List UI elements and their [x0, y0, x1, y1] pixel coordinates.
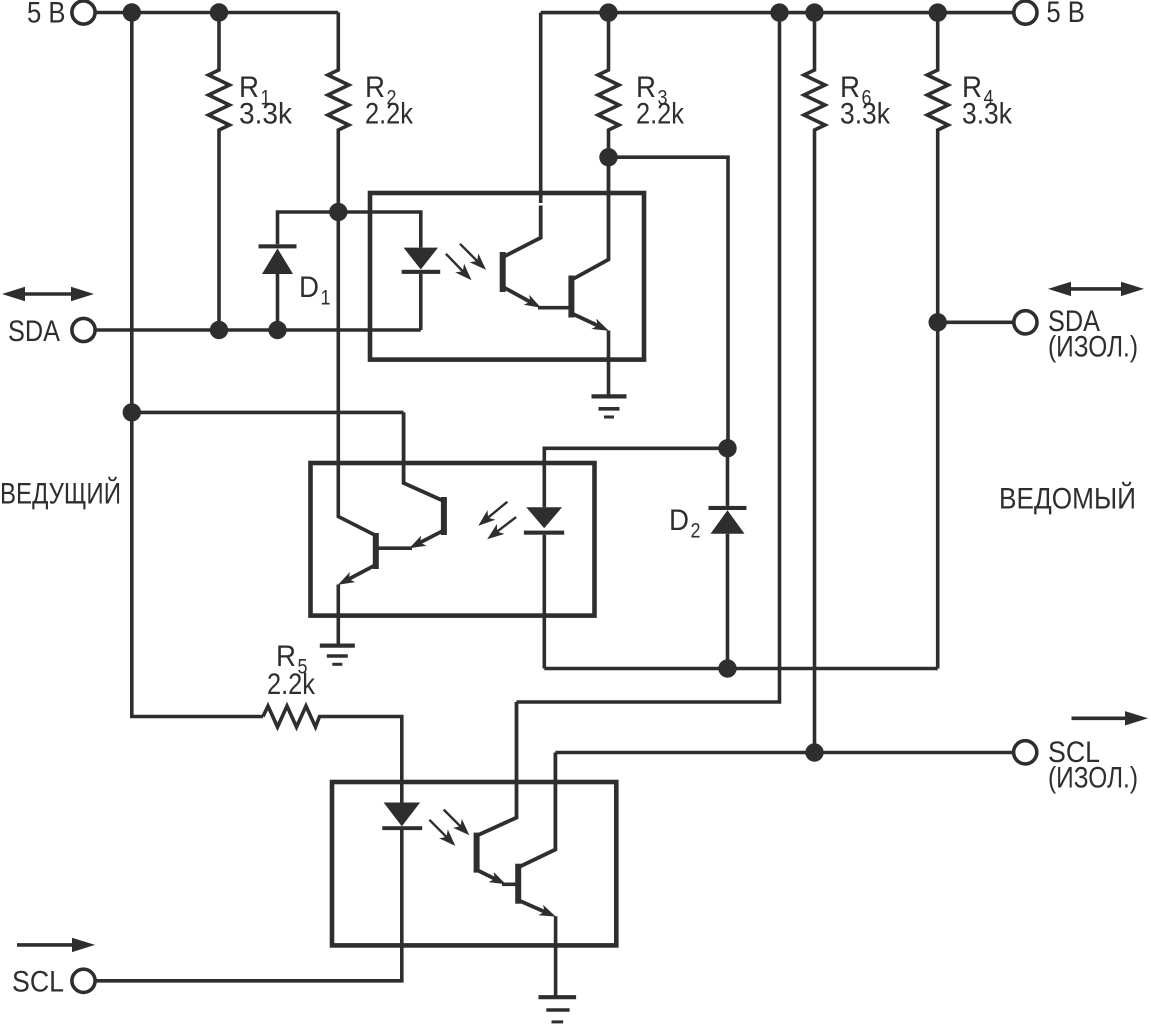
diode D1 — [259, 244, 297, 274]
node: 5V left rail / R1 — [210, 3, 228, 21]
terminal 5V right — [1014, 1, 1037, 24]
ground GND2 — [320, 643, 355, 647]
wire: SDA isolated stub — [938, 320, 1014, 324]
terminal SDA left — [72, 318, 95, 341]
node: R3 / wire to D2 — [599, 148, 617, 166]
arrow: SCL left input — [17, 943, 75, 947]
node: 5V right rail / R6 — [805, 3, 823, 21]
wire: R3 node to D2 cathode — [609, 157, 729, 448]
wire: collector T1a up to right rail — [539, 13, 543, 203]
node: 5V right rail / T1c collector — [770, 3, 788, 21]
phototransistor T1a of U1 — [500, 252, 506, 292]
optocoupler U1 body — [370, 193, 644, 360]
transistor T2a of U1 — [568, 276, 574, 318]
wire: slave lower node y=668 — [544, 667, 937, 671]
node: 5V right rail / R3 — [599, 3, 617, 21]
svg-text:SCL: SCL — [12, 966, 64, 999]
node: R2 / D1 cathode — [329, 203, 347, 221]
wire: D1 anode to SDA rail — [276, 274, 280, 330]
LED1 of U1 — [402, 248, 441, 274]
svg-text:2: 2 — [691, 520, 701, 543]
node: left rail / mid rail — [123, 403, 141, 421]
terminal SDA isolated — [1014, 311, 1037, 334]
terminal SCL isolated — [1014, 741, 1037, 764]
light arrows U3 — [429, 810, 461, 838]
svg-text:5 В: 5 В — [1046, 0, 1085, 29]
wire: R2/D1 node down to T2b collector — [338, 212, 375, 536]
node: SDA isolated / R4 — [929, 313, 947, 331]
wire: D2 anode down — [726, 534, 730, 669]
arrow: SDA left bidirectional — [22, 292, 74, 296]
terminal 5V left — [72, 1, 95, 24]
phototransistor T1c of U3 — [474, 833, 480, 873]
svg-text:3.3k: 3.3k — [962, 98, 1013, 131]
wire: D1 cathode to LED1 anode — [278, 212, 421, 248]
wire: T2b emitter to ground — [336, 585, 340, 646]
node: SCL isolated / R6 — [805, 743, 823, 761]
svg-text:2.2k: 2.2k — [636, 98, 685, 131]
svg-text:ВЕДУЩИЙ: ВЕДУЩИЙ — [0, 477, 121, 511]
svg-text:3.3k: 3.3k — [840, 98, 891, 131]
node: SDA / R1 — [210, 321, 228, 339]
wire: D2 cathode node to LED2 anode — [544, 448, 727, 507]
svg-text:5 В: 5 В — [27, 0, 66, 29]
svg-text:ВЕДОМЫЙ: ВЕДОМЫЙ — [999, 482, 1136, 516]
svg-text:(ИЗОЛ.): (ИЗОЛ.) — [1048, 331, 1138, 364]
svg-text:2.2k: 2.2k — [365, 98, 414, 131]
wire: top right rail — [541, 11, 1014, 15]
arrow: SDA isolated bidirectional — [1068, 287, 1124, 291]
wire: left vertical rail down to R5 — [132, 13, 263, 717]
optocoupler U2 body — [311, 463, 595, 616]
resistor R2 — [328, 13, 349, 213]
resistor R4 — [927, 13, 948, 323]
wire: R4 line continues down to slave node — [936, 322, 940, 668]
svg-text:(ИЗОЛ.): (ИЗОЛ.) — [1048, 762, 1138, 795]
node: SDA / D1 anode — [268, 321, 286, 339]
resistor R5 — [263, 706, 402, 803]
transistor T2b of U2 — [373, 533, 379, 569]
node: 5V left rail / left vertical — [123, 3, 141, 21]
arrow: SCL isolated output — [1072, 716, 1129, 720]
wire: SCL master rail from LED3 cathode — [95, 830, 402, 981]
light arrows U1 — [446, 244, 478, 272]
wire: SCL isolated rail — [555, 751, 1013, 755]
node: D2 anode / slave lower node — [718, 659, 736, 677]
LED2 of U2 — [524, 507, 564, 534]
svg-text:2.2k: 2.2k — [267, 668, 316, 701]
ground GND1 — [592, 394, 627, 398]
node: 5V right rail / R4 — [929, 3, 947, 21]
svg-text:SDA: SDA — [8, 315, 60, 348]
resistor R1 — [209, 13, 230, 331]
svg-text:3.3k: 3.3k — [239, 98, 293, 131]
wire: SDA master rail — [95, 328, 421, 332]
phototransistor T1b of U2 — [441, 497, 447, 535]
svg-text:D: D — [299, 271, 319, 304]
wire: T2a emitter to ground — [607, 331, 611, 397]
wire: left 5V top rail — [95, 11, 338, 15]
diode D2 — [726, 448, 730, 506]
wire: master mid rail to T1b collector — [132, 411, 404, 415]
svg-text:1: 1 — [321, 287, 331, 310]
node: D2 cathode / LED2 anode — [718, 439, 736, 457]
wire: T1c collector rail up to 5V right — [517, 13, 780, 702]
wire: LED1 cathode to SDA rail — [419, 274, 423, 330]
svg-text:D: D — [669, 504, 689, 537]
resistor R6 — [804, 13, 825, 753]
optocoupler U3 body — [332, 782, 616, 945]
wire: LED2 cathode down — [542, 535, 546, 669]
wire: T2c emitter to ground — [554, 916, 558, 997]
light arrows U2 — [487, 502, 516, 532]
resistor R3 — [598, 13, 619, 158]
ground GND3 — [539, 995, 577, 999]
transistor T2c of U3 — [515, 864, 521, 904]
LED3 of U3 — [382, 803, 422, 831]
terminal SCL left — [72, 969, 95, 992]
